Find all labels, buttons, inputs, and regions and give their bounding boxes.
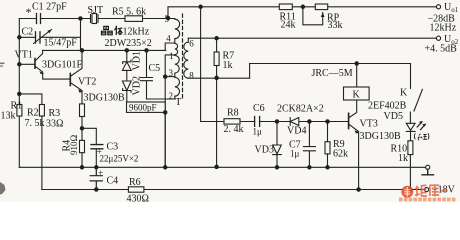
svg-text:C2: C2 <box>22 27 34 38</box>
resistor R3 <box>80 104 85 117</box>
label (red) drawn <box>414 133 429 140</box>
wire rail2 pin6 to U o2 <box>188 37 436 39</box>
svg-text:6: 6 <box>189 39 194 49</box>
svg-text:K: K <box>353 90 361 101</box>
LED arrows <box>417 122 425 130</box>
VT3 emitter arrow <box>354 130 359 133</box>
transformer T secondary winding <box>184 42 189 78</box>
wire box to rail1 <box>164 112 166 167</box>
crystal SJT <box>81 15 126 23</box>
zener VD1 <box>122 50 131 70</box>
terminal ground circle <box>426 165 430 169</box>
node C7 junction <box>308 120 311 123</box>
capacitor C6 <box>255 117 260 127</box>
svg-text:12kHz: 12kHz <box>430 23 457 34</box>
svg-text:33Ω: 33Ω <box>46 119 63 130</box>
node C1 SJT junction <box>79 17 82 20</box>
svg-text:3DG130B: 3DG130B <box>84 93 125 104</box>
svg-text:R5 5. 6k: R5 5. 6k <box>112 7 146 18</box>
svg-text:C1 27pF: C1 27pF <box>32 2 67 13</box>
wire R10 to bottom rail <box>409 155 411 190</box>
C2 arrow <box>34 30 52 44</box>
wire pin4 step <box>165 43 175 50</box>
switch K' <box>410 64 422 124</box>
svg-text:T: T <box>175 97 181 108</box>
capacitor C7 <box>303 122 315 168</box>
svg-text:15/47pF: 15/47pF <box>44 38 78 49</box>
watermark logo circle <box>401 185 447 198</box>
svg-text:K: K <box>400 88 408 99</box>
svg-text:1μ: 1μ <box>290 149 300 159</box>
wire top rail to U o1 <box>168 7 436 18</box>
svg-text:VT2: VT2 <box>78 77 96 88</box>
potentiometer RP <box>315 4 327 10</box>
wire C1-C2 right junction vertical <box>80 19 82 51</box>
capacitor C1 <box>37 14 41 24</box>
resistor R9 <box>325 142 330 154</box>
diode VD3 <box>273 122 282 168</box>
svg-text:R2: R2 <box>27 108 39 119</box>
wire R9 leads <box>327 122 329 168</box>
svg-text:VT1: VT1 <box>15 50 33 61</box>
resistor R6 <box>128 187 144 192</box>
wire oscillator collector line y50 <box>43 49 166 51</box>
transistor VT1 <box>34 59 36 69</box>
wire pin6 <box>187 38 189 42</box>
resistor R8 <box>224 119 240 124</box>
svg-text:C3: C3 <box>107 142 119 153</box>
svg-text:3DG130B: 3DG130B <box>360 131 401 142</box>
wire R1 R2 link <box>19 94 42 105</box>
svg-text:2EF402B: 2EF402B <box>368 101 407 112</box>
svg-text:R3: R3 <box>49 108 61 119</box>
svg-text:2CK82A×2: 2CK82A×2 <box>277 104 324 115</box>
wire relay K coil lead <box>356 64 358 88</box>
svg-text:9600pF: 9600pF <box>129 103 157 113</box>
resistor R10 <box>408 141 413 155</box>
svg-text:22μ25V×2: 22μ25V×2 <box>100 154 139 164</box>
svg-text:2: 2 <box>169 91 174 101</box>
svg-text:13k: 13k <box>1 111 16 122</box>
svg-text:3DG101F: 3DG101F <box>42 60 82 71</box>
wire C3 branch <box>82 128 96 167</box>
svg-text:C4: C4 <box>107 176 119 187</box>
diode VD4 <box>290 118 348 126</box>
svg-text:JRC—5M: JRC—5M <box>312 68 353 79</box>
wire pin1 stub <box>165 55 175 167</box>
wire R4 to rail1 <box>81 153 83 168</box>
resistor R2 <box>39 105 44 117</box>
VT2 emitter arrow <box>78 89 83 92</box>
svg-text:5: 5 <box>165 14 170 24</box>
node R9 junction <box>326 120 329 123</box>
svg-text:C6: C6 <box>253 103 265 114</box>
svg-text:3: 3 <box>169 68 174 78</box>
bottom rail <box>42 189 425 191</box>
wire left rail vertical <box>18 19 20 168</box>
wire top-left C1 loop <box>19 18 80 20</box>
transistor VT2 <box>69 74 71 86</box>
LED VD5 <box>406 123 415 141</box>
svg-text:1: 1 <box>169 51 174 61</box>
rail1 common <box>19 166 425 168</box>
capacitor C2 variable <box>36 32 41 43</box>
svg-text:VD2: VD2 <box>132 76 143 95</box>
watermark dash <box>441 190 447 192</box>
svg-text:910Ω: 910Ω <box>69 135 79 156</box>
resistor R5 <box>125 16 143 22</box>
node C2 junction <box>18 36 21 39</box>
svg-text:12kHz: 12kHz <box>123 27 150 38</box>
node VT1 base <box>18 63 21 66</box>
resistor R7 <box>214 52 219 66</box>
node R5 transformer pin5 <box>166 16 169 19</box>
terminal U o1 <box>436 5 440 9</box>
label 晶体 drawn glyphs <box>102 26 123 35</box>
RP feedback wire <box>303 7 323 25</box>
wire pin8 <box>188 77 249 79</box>
wire pin3 stub <box>165 76 175 78</box>
svg-text:VD3: VD3 <box>255 145 274 156</box>
svg-text:R8: R8 <box>227 108 239 119</box>
wire pin8 step to relay <box>250 64 411 79</box>
svg-text:VD5: VD5 <box>384 111 403 122</box>
svg-text:2. 4k: 2. 4k <box>224 124 244 135</box>
terminal U o2 <box>436 36 440 40</box>
svg-text:C5: C5 <box>149 63 161 74</box>
terminal -18V <box>425 187 429 191</box>
transformer core dashed <box>182 14 184 100</box>
node C5 junction <box>145 49 148 52</box>
svg-text:VD4: VD4 <box>287 126 306 137</box>
node VT2 collector junction <box>80 49 83 52</box>
svg-text:2DW235×2: 2DW235×2 <box>105 38 152 49</box>
capacitor C5 <box>141 50 153 99</box>
watermark glyph 维 <box>415 185 427 196</box>
node VD1 junction <box>125 49 128 52</box>
9600pF box <box>127 102 166 112</box>
svg-text:SJT: SJT <box>88 5 104 16</box>
node VD3 junction <box>275 120 278 123</box>
svg-text:4: 4 <box>166 34 171 44</box>
resistor R11 <box>279 4 292 10</box>
node C3 branch <box>80 127 83 130</box>
svg-text:62k: 62k <box>333 149 348 160</box>
node R11 RP <box>301 5 304 8</box>
svg-text:1k: 1k <box>223 60 233 71</box>
VT1 emitter arrow <box>39 71 44 74</box>
relay K box <box>344 87 370 100</box>
svg-text:R6: R6 <box>129 177 141 188</box>
svg-text:1k: 1k <box>398 153 408 164</box>
wire K box to VT3 collector <box>349 100 358 190</box>
wire R3 to R4 <box>81 117 83 141</box>
capacitor C3 <box>91 145 103 149</box>
wire C2 branch <box>19 36 80 38</box>
node relay junction <box>355 62 358 65</box>
svg-text:24k: 24k <box>281 20 296 31</box>
wire R8 to C6 <box>240 121 255 123</box>
RP wiper arrow <box>321 13 325 18</box>
wire R2 down to bottom rail <box>41 116 43 190</box>
wire R7 vertical <box>216 38 218 167</box>
transistor VT3 base bar <box>348 113 350 128</box>
ground symbol <box>422 169 434 174</box>
resistor R1 <box>17 105 22 117</box>
watermark glyph 库 <box>430 185 440 196</box>
svg-text:VT3: VT3 <box>360 119 378 130</box>
svg-text:+: + <box>98 169 103 179</box>
node pin3 <box>164 75 167 78</box>
svg-text:VD1: VD1 <box>132 51 143 70</box>
svg-text:8: 8 <box>189 71 194 81</box>
wire pin2 bottom <box>147 96 175 99</box>
zener VD2 <box>122 70 131 102</box>
svg-text:430Ω: 430Ω <box>127 194 149 203</box>
svg-text:33k: 33k <box>328 20 343 31</box>
svg-text:*: * <box>26 5 32 19</box>
svg-text:+4. 5dB: +4. 5dB <box>425 44 458 55</box>
node box corner <box>164 111 167 114</box>
wire x200 vertical <box>201 7 224 122</box>
resistor R4 <box>80 140 85 152</box>
capacitor C4 <box>90 167 102 189</box>
svg-text:7. 5k: 7. 5k <box>25 118 45 129</box>
svg-text:1μ: 1μ <box>253 127 263 137</box>
transformer T primary winding <box>168 19 180 97</box>
watermark small text row <box>399 198 455 202</box>
scan artifact left edge <box>0 63 6 195</box>
